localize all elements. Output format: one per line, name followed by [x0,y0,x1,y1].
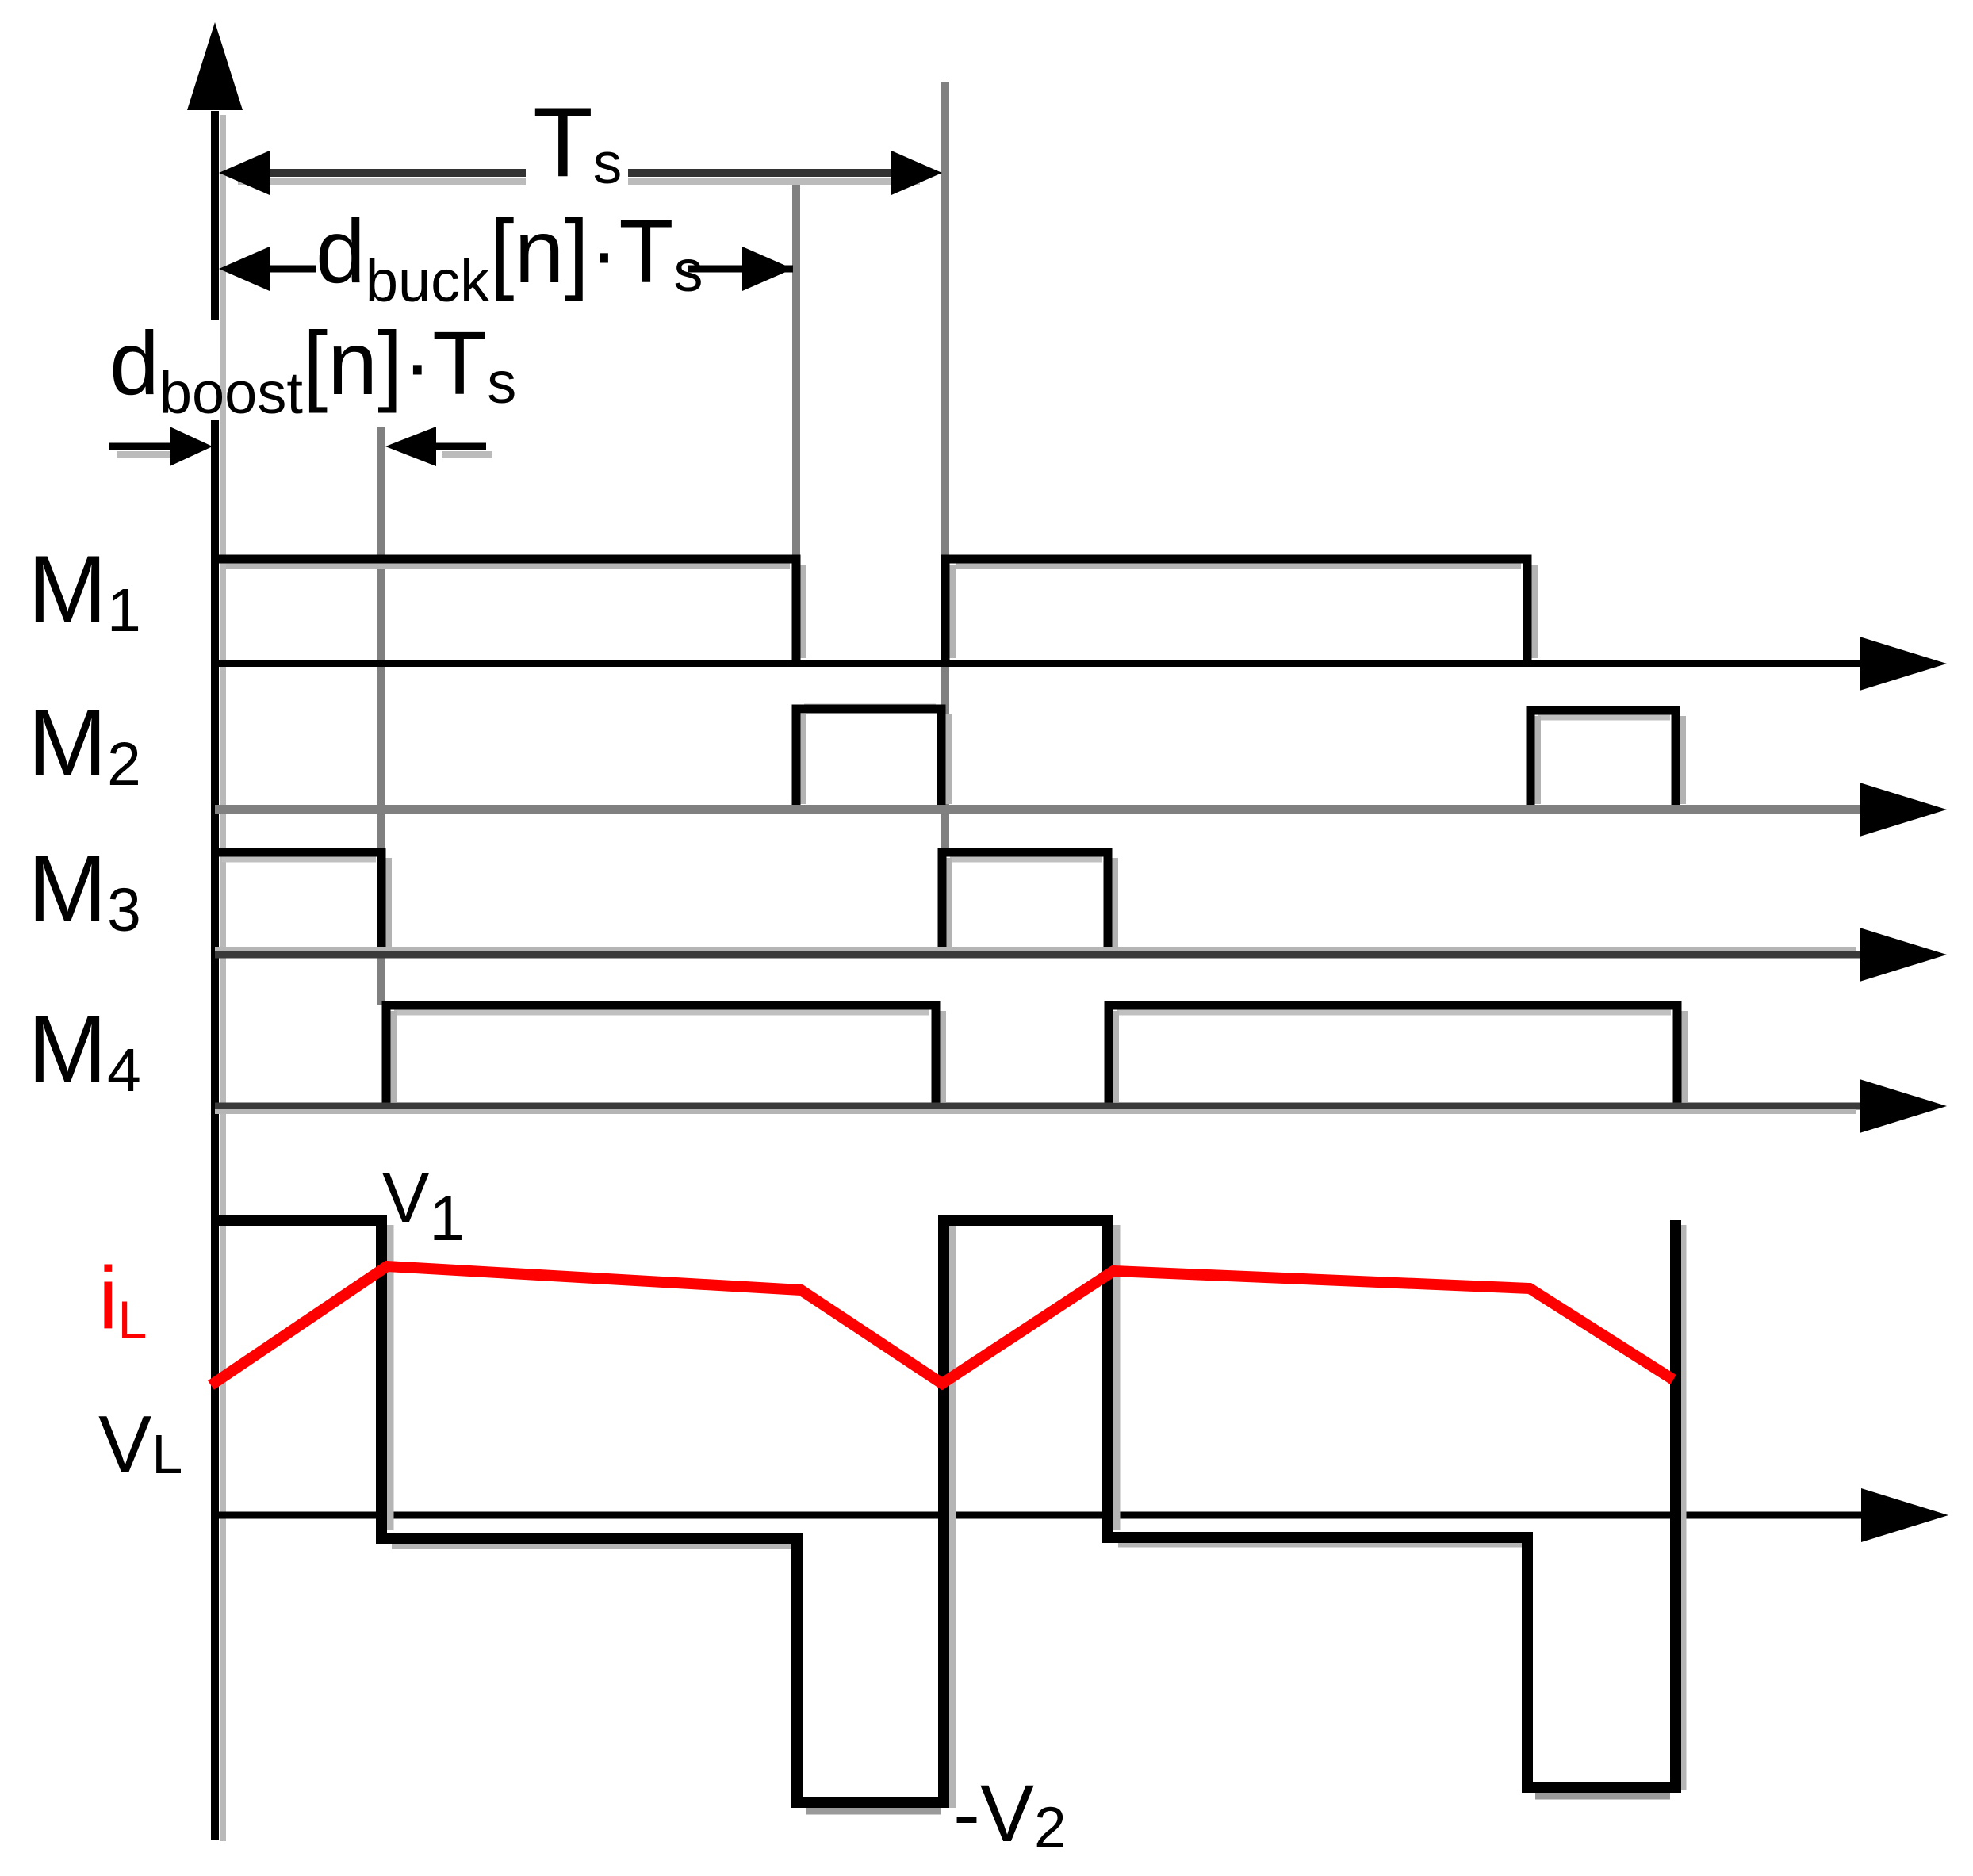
guide line at d_boost boundary (x=480) [377,427,385,1005]
M1 pulse 2 rising-edge shadow [949,565,956,658]
vL level-1 shadow (period 2) [1118,1541,1523,1548]
M3 pulse 1 top shadow [222,857,376,863]
M4 baseline light shadow [215,1109,1856,1114]
M3 baseline arrowhead [1860,928,1947,982]
Ts dimension left arrowhead [219,151,270,195]
vertical axis shadow [220,115,226,1841]
guide line at Ts boundary (x=1192) [941,82,949,855]
M1 pulse 2 falling-edge shadow [1531,565,1538,658]
M2 pulse 2 [1531,710,1676,810]
vL time axis [215,1512,1864,1519]
M2 pulse 2 rising-edge shadow [1534,716,1541,804]
vertical axis lower segment [211,420,219,1840]
M4 pulse 1 rising-edge shadow [390,1011,397,1102]
M3 pulse 2 rising-edge shadow [946,858,952,950]
vertical axis arrowhead [187,22,243,110]
vL level-1 shadow (period 1) [392,1542,793,1549]
Ts dimension right arrowhead [891,151,942,195]
M4 baseline arrowhead [1860,1079,1947,1133]
d_buck dimension left arrowhead [219,247,270,291]
M2 pulse 2 top shadow [1538,715,1670,721]
M1 baseline axis [215,660,1864,667]
d_boost right arrow line [435,443,486,450]
M3 baseline axis [215,951,1864,959]
M4 pulse 2 top shadow [1117,1010,1671,1016]
d_buck dimension line right segment [688,266,793,273]
M1 pulse 1 falling-edge shadow [800,565,806,658]
M2 pulse 1 [796,709,941,810]
M1 pulse 2 [945,559,1527,664]
M2 pulse 1 top shadow [804,704,936,710]
M1 baseline arrowhead [1860,637,1947,691]
M1 pulse 2 top shadow [956,563,1521,569]
M4 pulse 1 top shadow [394,1010,929,1016]
M4 pulse 2 [1109,1005,1677,1106]
vL time axis arrowhead [1861,1488,1948,1542]
d_boost right arrowhead (points left to guide) [385,427,436,466]
M2 baseline arrowhead [1860,783,1947,837]
vL rising-edge shadow at x=2113 [1680,1225,1687,1790]
M1 pulse 1 [211,559,796,664]
d_buck dimension line left segment [230,266,316,273]
Ts dimension line left segment [230,169,526,177]
M3 pulse 2 falling-edge shadow [1112,858,1118,950]
vL rising-edge shadow at x=1190 [949,1225,956,1808]
vL falling-edge shadow at x=481 [387,1225,394,1530]
M4 pulse 1 [386,1005,936,1106]
M2 pulse 1 falling-edge shadow [945,714,952,804]
M3 baseline light shadow [215,947,1856,951]
d_boost left arrowhead (points right to axis) [170,427,213,466]
M2 pulse 1 rising-edge shadow [800,714,806,804]
M4 pulse 2 falling-edge shadow [1681,1011,1688,1102]
M3 pulse 1 falling-edge shadow [385,858,392,950]
d_boost left arrow line shadow [117,451,173,458]
M3 pulse 2 [942,852,1108,955]
guide line at d_buck boundary (x=1004) [792,181,800,557]
vL -V2 shadow (period 2) [1535,1793,1670,1800]
vL waveform [211,1220,1676,1802]
M2 pulse 2 falling-edge shadow [1680,716,1686,804]
M4 baseline axis [215,1103,1864,1110]
M3 pulse 2 top shadow [950,857,1102,863]
M3 pulse 1 [211,852,381,955]
vL -V2 shadow (period 1) [806,1808,941,1815]
M4 pulse 1 falling-edge shadow [940,1011,946,1102]
d_boost right arrow line shadow [442,451,492,458]
Ts dimension line shadow [238,178,526,185]
M2 baseline axis (gray) [215,805,1864,814]
vL falling-edge shadow at x=1397 [1113,1225,1121,1530]
M1 pulse 1 top shadow [226,563,790,569]
Ts dimension line right segment [628,169,912,177]
vertical axis upper segment [211,111,219,320]
d_buck dimension right arrowhead [742,247,793,291]
iL waveform (red) [211,1266,1673,1385]
M4 pulse 2 rising-edge shadow [1113,1011,1119,1102]
d_boost left arrow line [109,443,173,450]
